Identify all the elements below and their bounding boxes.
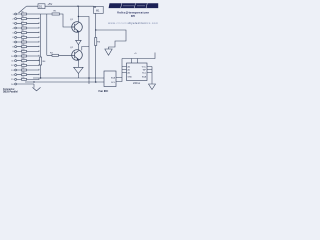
wire pin10 row [17, 55, 39, 57]
net stub tick pin14 [38, 74, 40, 76]
node junction R4 / bottom rail [40, 77, 41, 78]
ground arrow symbol [105, 49, 112, 55]
wire pin13 row [17, 69, 39, 71]
net stub tick pin12 [38, 64, 40, 66]
resistor R16 (inline, pin12) [22, 64, 27, 66]
svg-text:R12: R12 [22, 44, 25, 46]
svg-text:GND: GND [128, 76, 133, 78]
svg-text:R18: R18 [22, 72, 25, 74]
wire vertical to R4 [40, 14, 42, 57]
wire bottom rail 2 [25, 81, 104, 83]
net stub tick pin11 [38, 60, 40, 62]
wire pin15 row [17, 78, 39, 80]
wire Q1 emitter down [77, 32, 79, 41]
svg-text:D1: D1 [39, 4, 43, 8]
logo wordmark [109, 3, 159, 8]
wire Q1 collector [77, 6, 79, 22]
wire vertical pin2 feed [46, 14, 48, 55]
node junction M1 rail / bottom rail 2 [95, 81, 97, 83]
wire arrow to bottom rail [77, 73, 79, 78]
wire +5V top rail [27, 5, 94, 7]
wire +5 rail to IC [122, 53, 155, 59]
resistor R11 (inline, pin7) [22, 41, 27, 43]
transistor Q1 [72, 22, 83, 33]
wire M1 vertical rail [95, 13, 97, 82]
resistor R7 (inline, pin3) [22, 22, 27, 24]
svg-text:SDA: SDA [142, 75, 147, 78]
wire Q2 emitter down [77, 60, 79, 68]
net stub tick pin15 [38, 78, 40, 80]
svg-text:R9: R9 [22, 30, 24, 32]
wire pin9 row [17, 50, 39, 52]
wire Q1 collector tap [78, 16, 79, 17]
wire IC top stubs [132, 59, 138, 64]
arrow symbol between Q1 and Q2 [76, 40, 82, 44]
svg-text:Connector: Connector [3, 88, 15, 91]
wire Q2 collector tap [82, 47, 89, 51]
wire R1 to Q1 base [60, 14, 72, 27]
wire pin1 row [17, 13, 52, 15]
wire pin7 row [17, 41, 39, 43]
svg-text:R13: R13 [22, 49, 25, 51]
resistor R9 (inline, pin5) [22, 32, 27, 34]
svg-text:R10: R10 [22, 35, 25, 37]
wire pin16 down to chevron ground [33, 84, 35, 88]
wire pin5 row [17, 32, 39, 34]
resistor R15 (inline, pin11) [22, 60, 27, 62]
connector X1 (DB25) pin column [15, 13, 17, 85]
component M1 box top [94, 6, 104, 13]
svg-text:DIY: DIY [131, 14, 136, 18]
wire pin14 row [17, 74, 39, 76]
wire R2 to Q2 base [47, 54, 72, 56]
wire IC left pin stubs [122, 67, 127, 73]
wire pin3 row [17, 22, 39, 24]
svg-text:DB25 Parallel: DB25 Parallel [3, 92, 18, 94]
resistor R2 (Q2 base) [52, 54, 59, 56]
arrow symbol below Q2 [74, 67, 84, 73]
resistor R1 (Q1 base) [52, 13, 60, 15]
svg-text:www.circuitsdiyelectronics.com: www.circuitsdiyelectronics.com [108, 21, 159, 25]
net stub tick pin5 [38, 32, 40, 34]
net stub tick pin8 [38, 46, 40, 48]
node junction at bottom rail 1 [88, 77, 90, 79]
svg-text:R19: R19 [22, 77, 25, 79]
net stub tick pin6 [38, 36, 40, 38]
resistor R18 (inline, pin14) [22, 74, 27, 76]
resistor R5 (inline, pin1) [22, 13, 27, 15]
resistor R13 (inline, pin9) [22, 50, 27, 52]
svg-text:R17: R17 [22, 68, 25, 70]
wire vertical into IC left pins [121, 59, 123, 78]
svg-text:24Cxx: 24Cxx [133, 82, 141, 85]
net stub tick pin4 [38, 27, 40, 29]
svg-text:R7: R7 [22, 21, 24, 23]
svg-text:Volts@temperature: Volts@temperature [117, 11, 149, 15]
svg-text:R11: R11 [22, 40, 25, 42]
resistor R17 (inline, pin13) [22, 69, 27, 71]
wire diagonal pin1 to +5V rail [19, 6, 27, 13]
net stub tick pin9 [38, 50, 40, 52]
text connector caption [3, 88, 18, 94]
resistor R12 (inline, pin8) [22, 46, 27, 48]
node junction at M1 box [94, 7, 95, 8]
wire bottom rail 1 [33, 77, 104, 79]
diode D1 box on top rail [38, 4, 45, 9]
svg-text:R5: R5 [22, 12, 24, 14]
resistor R14 (inline, pin10) [22, 55, 27, 57]
transistor Q2 [72, 50, 83, 61]
svg-text:+5V: +5V [48, 2, 53, 6]
svg-text:R14: R14 [22, 54, 25, 56]
wire pin8 row [17, 46, 39, 48]
ground symbol right (arrow) [149, 84, 156, 90]
resistor R8 (inline, pin4) [22, 27, 27, 29]
wire pin16 row to ground chevron [17, 83, 34, 85]
wire pin12 row [17, 64, 39, 66]
node junction M1 rail / right wire [95, 29, 96, 30]
svg-text:R16: R16 [22, 63, 25, 65]
wire R4 to bottom rail [40, 65, 42, 78]
svg-text:VCC: VCC [142, 66, 147, 68]
wire pin6 row [17, 36, 39, 38]
net stub tick pin3 [38, 22, 40, 24]
net stub tick pin2 [38, 18, 40, 20]
net stub tick pin13 [38, 69, 40, 71]
wire pin4 row [17, 27, 39, 29]
resistor R10 (inline, pin6) [22, 36, 27, 38]
wire staircase to ground arrow [96, 30, 126, 49]
IC U2 24Cxx [127, 63, 148, 81]
node junction rail2 / pin16 drop [33, 81, 34, 82]
wire pin2 row [17, 18, 39, 20]
svg-text:R15: R15 [22, 58, 25, 60]
node junction top rail / Q1 collector [77, 6, 78, 7]
wire IC right pins to ground rail [147, 67, 152, 85]
resistor R4 (vertical) [40, 57, 42, 65]
wire arrow to Q2 collector [77, 45, 79, 50]
resistor R19 (inline, pin15) [22, 78, 27, 80]
net stub tick pin10 [38, 55, 40, 57]
resistor R6 (inline, pin2) [22, 18, 27, 20]
connector pin numbers [11, 14, 14, 86]
svg-text:Fan IDC: Fan IDC [99, 89, 109, 93]
resistor R3 (vertical) [95, 38, 97, 46]
svg-text:R6: R6 [22, 16, 24, 18]
wire pin11 row [17, 60, 39, 62]
wire fan right pins [116, 78, 122, 82]
ground chevron left [33, 87, 41, 90]
svg-text:SDA: SDA [111, 77, 116, 80]
connector J2 Fan IDC box [104, 71, 116, 87]
net stub tick pin7 [38, 41, 40, 43]
svg-text:R8: R8 [22, 26, 24, 28]
